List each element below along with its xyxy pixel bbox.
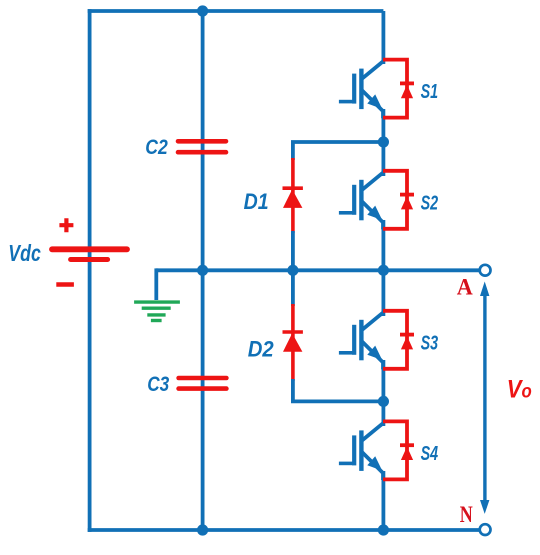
junction node neutral at diode leg (287, 265, 298, 276)
antiparallel diode of S1 (383, 60, 414, 118)
wire: switch leg segment S4 emitter (381, 471, 385, 530)
IGBT U:S4 (339, 423, 383, 480)
capacitor C3 (179, 378, 227, 389)
junction node neutral at capacitor leg (197, 265, 208, 276)
junction node neutral at switch leg (378, 265, 389, 276)
antiparallel diode of S2 (383, 171, 414, 229)
junction node S1/S2 (378, 136, 389, 147)
IGBT U:S3 (339, 312, 383, 369)
svg-text:S1: S1 (421, 81, 439, 103)
svg-text:S2: S2 (421, 192, 439, 214)
svg-text:C2: C2 (145, 136, 168, 159)
ground symbol (134, 302, 180, 320)
wire: neutral middle rail (156, 268, 480, 272)
wire: capacitor leg vertical (201, 11, 205, 530)
wire: D1 top horizontal to S1/S2 node (293, 142, 384, 160)
junction node bottom rail capacitor leg (197, 524, 208, 535)
wire: switch leg segment S3-S4 (381, 360, 385, 426)
svg-text:S4: S4 (421, 443, 439, 465)
junction node bottom rail switch leg (378, 524, 389, 535)
IGBT U:S2 (339, 172, 383, 229)
wire: ground tap (154, 268, 158, 300)
svg-text:N: N (460, 502, 473, 527)
battery Vdc negative plate (71, 257, 108, 262)
svg-text:A: A (457, 275, 473, 300)
antiparallel diode of S3 (383, 311, 414, 369)
battery plus sign (59, 218, 73, 232)
battery minus sign (56, 282, 74, 286)
IGBT U:S1 (339, 61, 383, 118)
wire: switch leg segment S2-S3 (381, 220, 385, 316)
battery Vdc positive plate (52, 246, 127, 252)
wire: left battery branch vertical (88, 9, 92, 532)
svg-text:D2: D2 (248, 337, 275, 362)
wire: switch leg segment S1-S2 (381, 109, 385, 176)
svg-text:D1: D1 (244, 189, 269, 214)
terminal N (480, 524, 491, 535)
wire: switch leg segment S1 collector (381, 11, 385, 64)
wire: D1 to neutral node (291, 231, 295, 270)
antiparallel diode of S4 (383, 421, 414, 479)
svg-text:S3: S3 (421, 332, 439, 354)
wire: top DC rail (88, 9, 384, 13)
junction node S3/S4 (378, 396, 389, 407)
wire: neutral node to D2 (291, 270, 295, 306)
wire: D2 bottom horizontal to S3/S4 node (293, 379, 384, 401)
capacitor C2 (178, 141, 226, 152)
svg-text:C3: C3 (147, 373, 169, 396)
clamp diode D1 (283, 158, 303, 233)
terminal A (480, 265, 491, 276)
wire: bottom DC rail (88, 528, 480, 532)
Vo measurement arrow (480, 282, 489, 514)
junction node top rail (197, 5, 208, 16)
clamp diode D2 (283, 304, 303, 381)
svg-text:Vdc: Vdc (8, 240, 41, 266)
